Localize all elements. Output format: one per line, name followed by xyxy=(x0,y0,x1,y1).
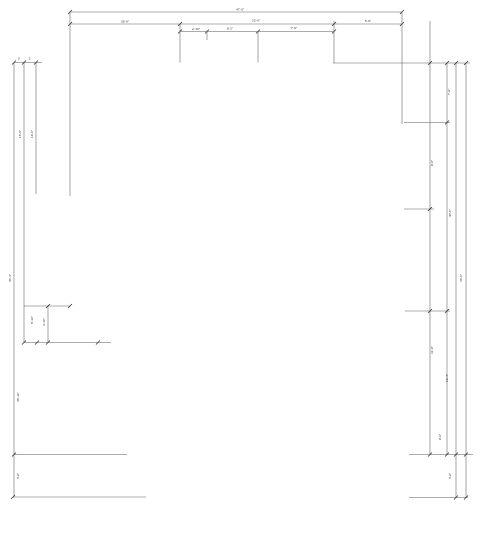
top dimension line row 2 xyxy=(68,19,404,27)
svg-text:4'-6": 4'-6" xyxy=(448,473,452,479)
svg-text:35'-6": 35'-6" xyxy=(121,20,129,24)
svg-text:9'-0": 9'-0" xyxy=(430,160,434,166)
svg-text:22'-6": 22'-6" xyxy=(252,19,260,23)
svg-text:47'-0": 47'-0" xyxy=(236,8,244,12)
svg-text:16'-4": 16'-4" xyxy=(445,374,449,382)
svg-text:11'-6": 11'-6" xyxy=(430,346,434,354)
svg-text:4'-10": 4'-10" xyxy=(42,318,46,326)
right dimension columns xyxy=(333,21,473,500)
svg-text:8'-2": 8'-2" xyxy=(227,27,233,31)
svg-text:16'-6": 16'-6" xyxy=(18,130,22,138)
svg-text:4'-6": 4'-6" xyxy=(16,473,20,479)
svg-text:5'-6": 5'-6" xyxy=(365,19,371,23)
svg-text:8'-10": 8'-10" xyxy=(30,316,34,324)
svg-text:30'-0": 30'-0" xyxy=(448,209,452,217)
svg-text:30'-10": 30'-10" xyxy=(16,392,20,402)
svg-text:43'-6": 43'-6" xyxy=(459,274,463,282)
svg-text:16'-0": 16'-0" xyxy=(30,130,34,138)
top dimension line row 3 xyxy=(178,26,336,34)
svg-text:2'-10": 2'-10" xyxy=(192,27,200,31)
left dimension columns xyxy=(8,57,146,500)
svg-text:7'-6": 7'-6" xyxy=(447,89,451,95)
svg-text:9'-6": 9'-6" xyxy=(438,434,442,440)
top extension lines xyxy=(70,12,402,196)
top dimension line 47'-0" xyxy=(68,8,404,15)
svg-text:30'-4": 30'-4" xyxy=(8,274,12,282)
svg-text:7'-6": 7'-6" xyxy=(291,26,297,30)
